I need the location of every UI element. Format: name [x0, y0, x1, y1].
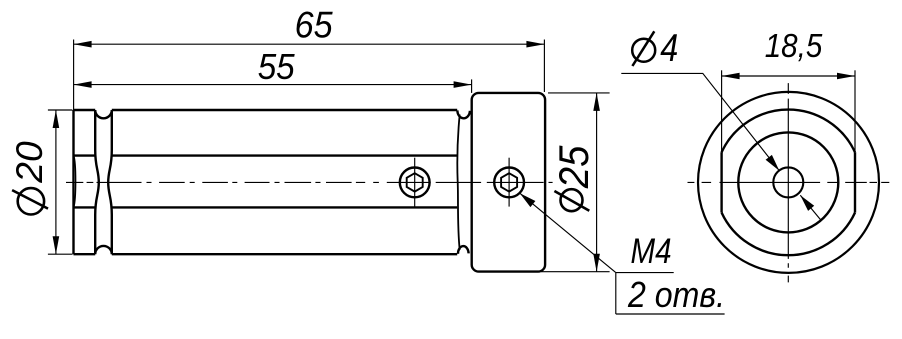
svg-text:2 отв.: 2 отв. — [627, 274, 725, 315]
svg-text:65: 65 — [295, 5, 333, 46]
svg-text:4: 4 — [660, 27, 678, 70]
svg-text:25: 25 — [550, 145, 597, 189]
svg-text:M4: M4 — [631, 232, 672, 271]
svg-text:55: 55 — [258, 46, 296, 87]
svg-text:18,5: 18,5 — [765, 27, 823, 64]
svg-text:20: 20 — [9, 141, 50, 184]
